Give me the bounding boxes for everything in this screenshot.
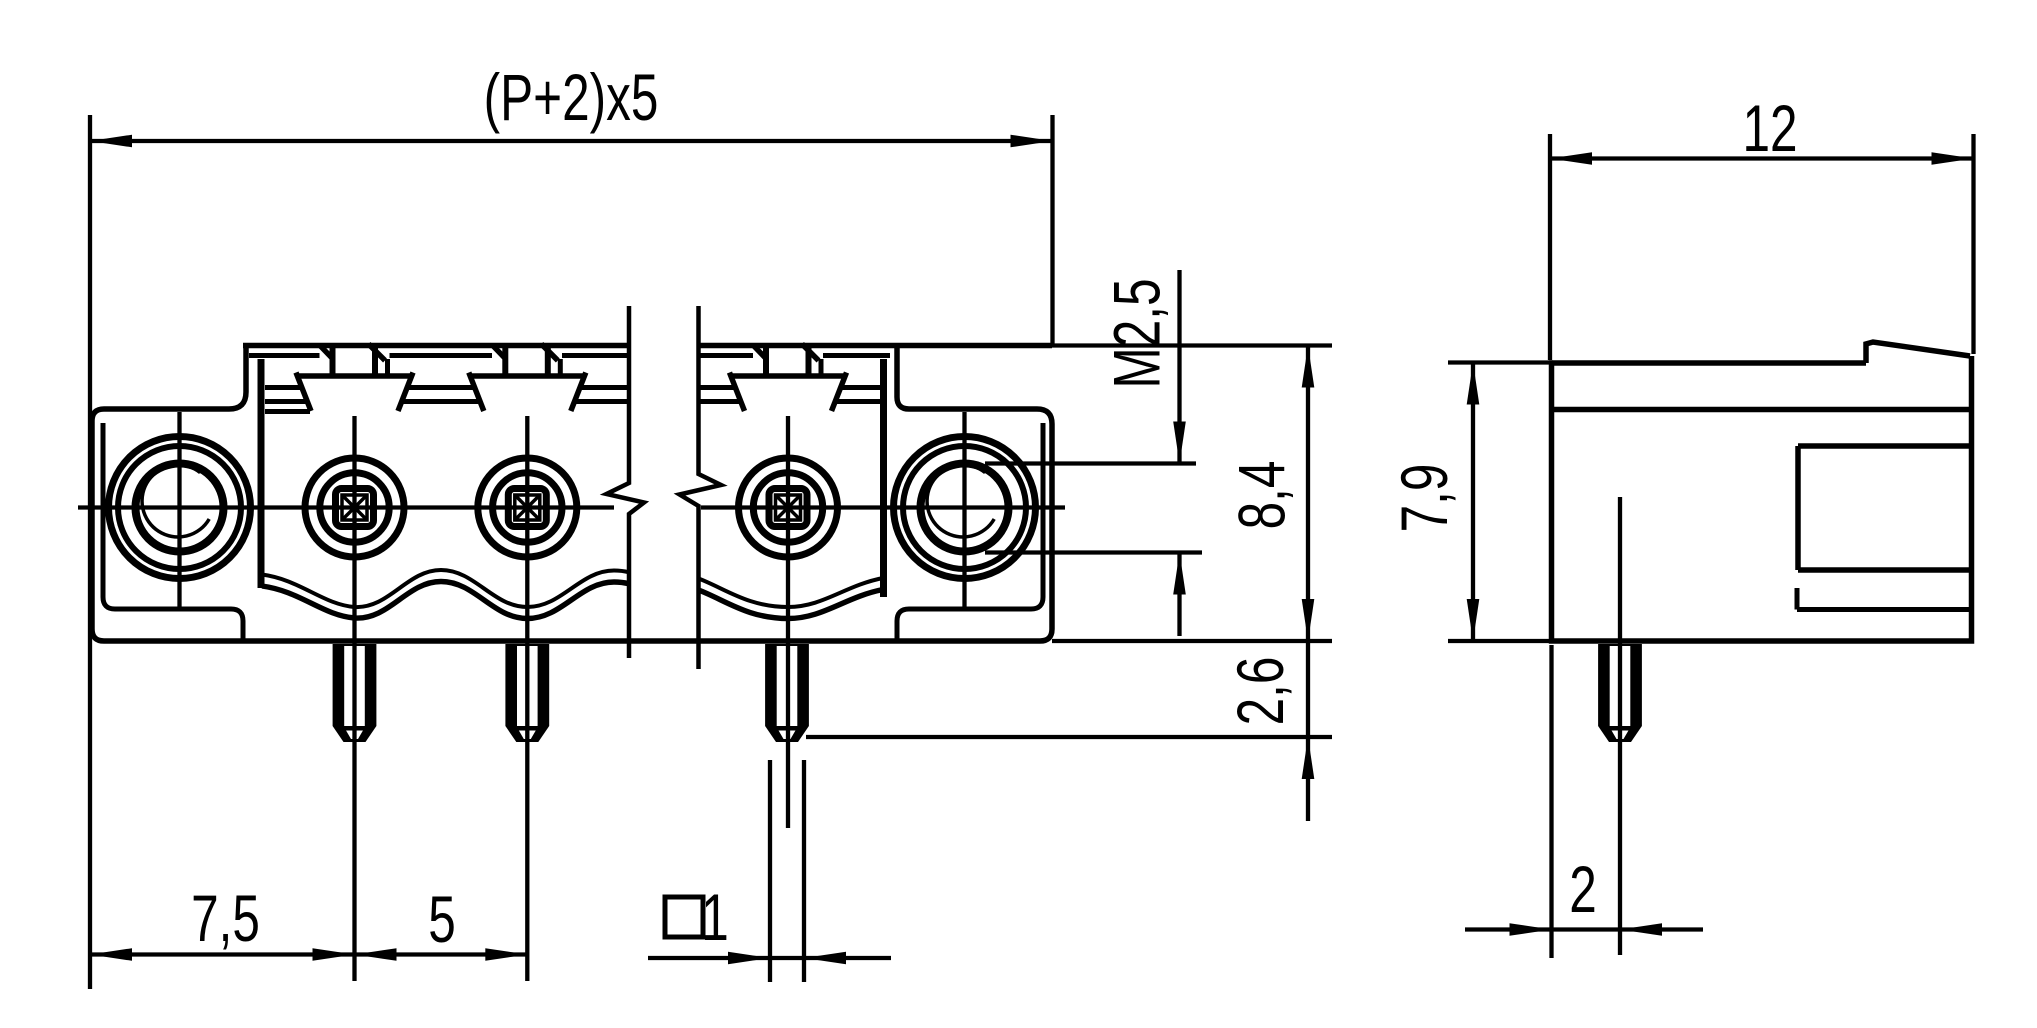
svg-text:7,9: 7,9 (1388, 464, 1462, 533)
svg-text:2: 2 (1569, 853, 1597, 927)
svg-text:12: 12 (1742, 92, 1797, 166)
svg-text:2,6: 2,6 (1224, 657, 1298, 726)
svg-text:(P+2)x5: (P+2)x5 (484, 61, 659, 135)
svg-text:5: 5 (428, 883, 456, 957)
svg-text:M2,5: M2,5 (1100, 278, 1174, 388)
svg-text:7,5: 7,5 (191, 882, 260, 956)
svg-text:8,4: 8,4 (1225, 461, 1299, 530)
svg-text:1: 1 (701, 881, 729, 955)
